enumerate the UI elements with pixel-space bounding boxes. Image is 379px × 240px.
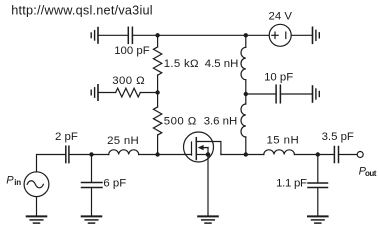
transistor Q1 MOSFET <box>184 132 221 162</box>
wire V2 up and right to C3 <box>37 155 66 172</box>
wire node B down to L1 <box>245 35 247 47</box>
ac source V2 Pin <box>24 172 49 197</box>
svg-text:15 nH: 15 nH <box>267 135 300 147</box>
node D <box>244 92 248 96</box>
capacitor C4 6 pF <box>82 183 103 188</box>
ground G6 (under C4) <box>82 216 102 223</box>
inductor L2 3.6 nH <box>241 104 246 137</box>
wire V1 to ground G2 <box>291 34 312 36</box>
ground G1 (left of C 100pF) <box>91 28 98 43</box>
capacitor C1 100 pF <box>128 27 132 43</box>
wire C4 down to ground <box>91 188 93 217</box>
node input <box>89 152 93 156</box>
svg-text:500 Ω: 500 Ω <box>164 116 197 128</box>
svg-text:2 pF: 2 pF <box>55 131 78 143</box>
svg-text:http://www.qsl.net/va3iul: http://www.qsl.net/va3iul <box>11 4 153 18</box>
wire L3 to gate node <box>139 154 158 156</box>
svg-text:1.1 pF: 1.1 pF <box>276 177 307 189</box>
wire input node to L3 <box>92 154 109 156</box>
wire Q1 source down to ground <box>207 155 209 217</box>
wire R2 to node C <box>140 92 157 94</box>
capacitor C2 10 pF <box>276 85 280 103</box>
wire node B to V1 <box>246 34 269 36</box>
svg-text:P: P <box>6 174 14 186</box>
inductor L1 4.5 nH <box>241 47 246 79</box>
wire V2 down to ground <box>36 197 38 216</box>
svg-text:4.5 nH: 4.5 nH <box>205 58 239 70</box>
wire node E to C6 <box>318 154 335 156</box>
svg-text:1.5 kΩ: 1.5 kΩ <box>164 58 199 70</box>
wire node A down to R1 <box>157 35 159 46</box>
wire node D down to L2 <box>245 94 247 104</box>
wire node E down to C5 <box>317 155 319 184</box>
svg-text:300 Ω: 300 Ω <box>112 75 145 87</box>
ground G8 (under C5) <box>308 216 328 223</box>
node drain <box>244 152 248 156</box>
node E <box>316 152 320 156</box>
resistor R2 300 Ohm <box>116 88 141 97</box>
resistor R1 1.5 kOhm <box>153 47 161 75</box>
wire C5 down to ground <box>317 188 319 217</box>
wire R3 to gate node <box>157 135 159 155</box>
svg-text:100 pF: 100 pF <box>114 45 150 57</box>
inductor L3 25 nH <box>109 150 139 155</box>
ground G4 (right of C2) <box>313 86 320 102</box>
wire C1 to node A <box>132 34 157 36</box>
node A <box>155 33 159 37</box>
wire node C down to R3 <box>157 93 159 108</box>
ground G7 (under Q1) <box>198 216 218 223</box>
wire C6 to output terminal <box>339 154 358 156</box>
wire L2 to drain node <box>245 137 247 155</box>
svg-text:25 nH: 25 nH <box>107 135 139 147</box>
node B <box>244 33 248 37</box>
capacitor C5 1.1 pF <box>308 183 328 188</box>
wire drain to drain node <box>221 154 246 156</box>
wire L4 to node E <box>294 154 317 156</box>
svg-text:3.5 pF: 3.5 pF <box>322 131 354 143</box>
ground G2 (right of V1) <box>313 27 320 43</box>
wire L1 to node D <box>245 80 247 94</box>
wire top rail node A to node B <box>158 34 246 36</box>
ground G3 (left of R2 300) <box>91 85 98 100</box>
svg-text:6 pF: 6 pF <box>103 178 126 190</box>
wire drain node to L4 <box>246 154 264 156</box>
wire ground to C1 <box>98 34 128 36</box>
svg-text:3.6 nH: 3.6 nH <box>204 116 238 128</box>
svg-text:24 V: 24 V <box>269 10 293 22</box>
svg-text:out: out <box>365 169 377 178</box>
svg-text:in: in <box>14 178 21 187</box>
inductor L4 15 nH <box>264 150 295 155</box>
node gate <box>155 152 159 156</box>
wire gate node to Q1 <box>158 154 192 156</box>
terminal Pout <box>357 152 363 158</box>
capacitor C6 3.5 pF <box>334 147 338 163</box>
dc source V1 24 V <box>269 24 291 46</box>
svg-text:10 pF: 10 pF <box>264 71 293 83</box>
wire R1 to node C <box>157 75 159 93</box>
wire C3 to input node <box>69 154 91 156</box>
wire node D to C2 <box>246 93 276 95</box>
capacitor C3 2 pF <box>66 146 69 162</box>
wire C2 to ground G4 <box>280 93 312 95</box>
node C <box>155 90 159 94</box>
ground G5 (under V2) <box>27 216 47 223</box>
wire input node down to C4 <box>91 155 93 183</box>
wire ground to R2 <box>98 92 116 94</box>
resistor R3 500 Ohm <box>153 107 161 135</box>
